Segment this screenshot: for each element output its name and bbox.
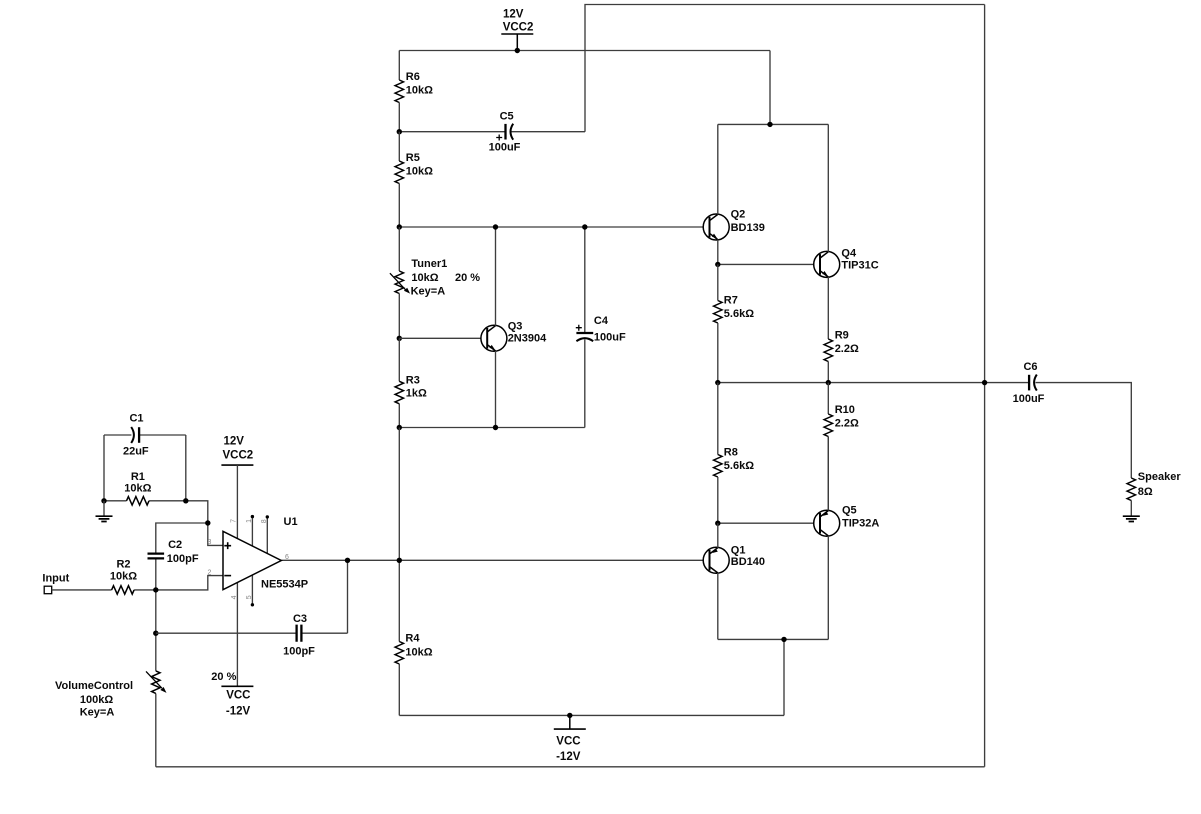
svg-text:10kΩ: 10kΩ <box>406 84 433 96</box>
svg-text:Q4: Q4 <box>841 248 857 260</box>
svg-text:10kΩ: 10kΩ <box>124 483 151 495</box>
wire rail drop to output stage box <box>769 51 771 125</box>
wire bootstrap C5 to top <box>585 5 985 132</box>
node input / C2 bottom <box>153 587 158 592</box>
svg-text:Tuner1: Tuner1 <box>411 258 447 270</box>
node C1-R1 left <box>101 498 106 503</box>
wire Q3 bottom rail y=427.5 <box>399 427 585 429</box>
wire C1 left vertical <box>103 435 105 501</box>
capacitor C2 <box>148 539 199 565</box>
svg-text:100uF: 100uF <box>489 141 521 153</box>
port Input <box>42 572 88 593</box>
wire Q5 base <box>718 522 820 524</box>
svg-text:5.6kΩ: 5.6kΩ <box>724 460 754 472</box>
resistor R4 <box>395 632 433 715</box>
svg-text:-12V: -12V <box>556 751 581 763</box>
transistor Q2 <box>703 124 765 264</box>
transistor Q1 <box>703 523 765 639</box>
resistor R10 <box>824 383 859 511</box>
svg-text:R5: R5 <box>406 152 420 164</box>
svg-text:7: 7 <box>231 519 238 523</box>
wire Q3 base <box>399 337 487 339</box>
svg-text:8: 8 <box>261 519 268 523</box>
wire volume control to feedback <box>155 694 157 767</box>
wire C6 to speaker <box>1036 383 1132 478</box>
svg-text:R2: R2 <box>116 558 130 570</box>
svg-text:10kΩ: 10kΩ <box>406 165 433 177</box>
potentiometer Tuner1 <box>390 227 480 338</box>
vcc VCC -12V opamp symbol <box>211 671 253 717</box>
svg-text:Q5: Q5 <box>842 505 857 517</box>
svg-text:1: 1 <box>246 519 253 523</box>
svg-text:BD139: BD139 <box>731 222 765 234</box>
transistor Q5 <box>814 437 880 640</box>
resistor R1 <box>104 471 186 505</box>
node bottom rail left <box>397 425 402 430</box>
svg-text:100uF: 100uF <box>594 332 626 344</box>
capacitor C4 <box>576 227 626 428</box>
svg-text:100kΩ: 100kΩ <box>80 694 113 706</box>
svg-text:12V: 12V <box>224 436 245 448</box>
wire C2 top to noninverting node <box>156 523 208 554</box>
wire feedback bottom run <box>156 766 985 768</box>
node C3 left <box>153 631 158 636</box>
node R8 / Q5 base / Q1 emitter <box>715 521 720 526</box>
wire opamp output to Q1 base <box>281 559 709 561</box>
svg-text:4: 4 <box>231 595 238 599</box>
resistor R6 <box>395 51 433 132</box>
svg-text:10kΩ: 10kΩ <box>411 272 438 284</box>
wire feedback right vertical <box>984 5 986 767</box>
node VCC2 tap on rail <box>515 48 520 53</box>
svg-text:Q2: Q2 <box>731 209 746 221</box>
wire output stage box top <box>718 123 829 125</box>
wire output stage box bottom <box>718 638 829 640</box>
node -12V rail tap <box>567 713 572 718</box>
svg-text:5: 5 <box>246 595 253 599</box>
svg-text:R9: R9 <box>835 330 849 342</box>
svg-text:3: 3 <box>208 539 212 546</box>
svg-text:6: 6 <box>285 554 289 561</box>
svg-text:Q3: Q3 <box>508 321 523 333</box>
ground at R1 <box>96 501 113 522</box>
node output on R9-R10 column <box>826 380 831 385</box>
node R6-R5-C5 <box>397 129 402 134</box>
capacitor C1 <box>104 413 186 458</box>
svg-text:2.2Ω: 2.2Ω <box>835 417 859 429</box>
svg-text:100uF: 100uF <box>1013 393 1045 405</box>
capacitor C3 <box>156 613 348 658</box>
wire output node horizontal y=382.6 <box>718 382 1029 384</box>
svg-text:VCC: VCC <box>556 736 580 748</box>
svg-text:VCC2: VCC2 <box>223 450 254 462</box>
wire box bottom to -12V rail <box>783 639 785 715</box>
svg-text:VCC: VCC <box>226 690 250 702</box>
node output on feedback column <box>982 380 987 385</box>
svg-text:C6: C6 <box>1023 361 1037 373</box>
node rail drop on box top <box>767 122 772 127</box>
svg-text:R10: R10 <box>835 404 855 416</box>
resistor R2 <box>88 558 156 594</box>
svg-text:22uF: 22uF <box>123 446 149 458</box>
svg-text:C3: C3 <box>293 613 307 625</box>
svg-text:C1: C1 <box>129 413 143 425</box>
node C1-R1 right <box>183 498 188 503</box>
node opamp output tap <box>397 558 402 563</box>
resistor R8 <box>714 383 755 524</box>
svg-text:R8: R8 <box>724 447 738 459</box>
wire C1 right vertical to R1 <box>185 435 187 501</box>
svg-text:R3: R3 <box>406 374 420 386</box>
svg-text:Key=A: Key=A <box>80 707 115 719</box>
wire Q2 base rail y=227 <box>399 226 709 228</box>
capacitor C5 <box>399 110 585 153</box>
svg-text:BD140: BD140 <box>731 556 765 568</box>
svg-text:100pF: 100pF <box>167 553 199 565</box>
node opamp output / C3 branch <box>345 558 350 563</box>
svg-text:R4: R4 <box>405 632 420 644</box>
svg-text:10kΩ: 10kΩ <box>405 647 432 659</box>
wire bias chain mid vertical <box>398 428 400 642</box>
svg-text:R7: R7 <box>724 295 738 307</box>
svg-text:2N3904: 2N3904 <box>508 333 547 345</box>
resistor R7 <box>714 264 755 382</box>
svg-text:R6: R6 <box>406 71 420 83</box>
svg-text:Q1: Q1 <box>731 545 746 557</box>
wire input node down to volume control <box>155 558 157 671</box>
node Q3 collector on base rail <box>493 224 498 229</box>
resistor R5 <box>395 132 433 227</box>
wire Q4 base <box>718 263 820 265</box>
vcc VCC -12V bottom symbol <box>554 715 586 763</box>
svg-text:Speaker: Speaker <box>1138 471 1182 483</box>
resistor R3 <box>395 338 427 427</box>
svg-text:20 %: 20 % <box>455 272 480 284</box>
node Q3 base tap <box>397 336 402 341</box>
svg-text:20 %: 20 % <box>211 671 236 683</box>
potentiometer VolumeControl <box>55 671 167 719</box>
svg-text:2.2Ω: 2.2Ω <box>835 343 859 355</box>
wire C3 right vertical <box>347 560 349 633</box>
transistor Q4 <box>814 124 879 339</box>
capacitor C6 <box>1013 361 1045 405</box>
svg-text:NE5534P: NE5534P <box>261 579 308 591</box>
node noninverting feed <box>205 520 210 525</box>
svg-text:5.6kΩ: 5.6kΩ <box>724 308 754 320</box>
ground below speaker <box>1123 516 1140 521</box>
svg-text:-12V: -12V <box>226 706 251 718</box>
svg-text:C4: C4 <box>594 315 609 327</box>
op-amp U1 NE5534P <box>208 465 309 686</box>
svg-text:12V: 12V <box>503 8 524 20</box>
vcc 12V VCC2 top symbol <box>501 8 533 50</box>
svg-text:TIP31C: TIP31C <box>841 259 878 271</box>
node base rail left <box>397 224 402 229</box>
node box bottom center <box>781 637 786 642</box>
node Q3 emitter on bottom rail <box>493 425 498 430</box>
wire feedback to noninverting input <box>186 501 223 546</box>
svg-text:U1: U1 <box>284 516 298 528</box>
node Q2 emitter / Q4 base <box>715 262 720 267</box>
resistor R9 <box>824 330 859 383</box>
svg-text:Key=A: Key=A <box>411 285 446 297</box>
svg-text:8Ω: 8Ω <box>1138 486 1153 498</box>
node C4 top on base rail <box>582 224 587 229</box>
svg-text:R1: R1 <box>131 471 145 483</box>
transistor Q3 <box>481 227 547 428</box>
svg-text:100pF: 100pF <box>283 646 315 658</box>
wire -12V bottom rail <box>399 714 784 716</box>
wire input to inverting input <box>156 576 223 590</box>
wire VCC2 top rail <box>399 50 770 52</box>
svg-text:Input: Input <box>42 572 69 584</box>
svg-text:1kΩ: 1kΩ <box>406 388 427 400</box>
resistor Speaker <box>1127 471 1181 516</box>
svg-text:2: 2 <box>208 570 212 577</box>
vcc 12V VCC2 opamp symbol <box>221 436 253 466</box>
svg-text:VCC2: VCC2 <box>503 21 534 33</box>
svg-text:C2: C2 <box>168 539 182 551</box>
svg-text:TIP32A: TIP32A <box>842 518 879 530</box>
svg-text:VolumeControl: VolumeControl <box>55 680 133 692</box>
node output on R7-R8 column <box>715 380 720 385</box>
svg-text:10kΩ: 10kΩ <box>110 571 137 583</box>
svg-text:C5: C5 <box>500 110 514 122</box>
